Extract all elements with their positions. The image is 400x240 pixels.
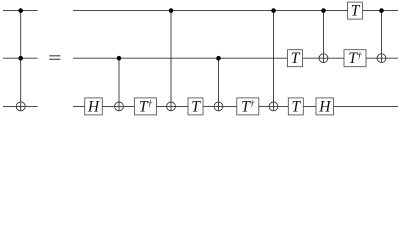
CNOT6 target q1 — [377, 54, 386, 63]
gate H2 q2 — [316, 98, 334, 115]
equals sign — [49, 55, 60, 59]
control dot CNOT1 q1 — [117, 56, 122, 61]
wire q2 left — [3, 105, 38, 107]
control dot q0 toffoli — [18, 8, 23, 13]
wire vertical toffoli link — [20, 11, 22, 111]
gate Tdg1 q2 — [135, 98, 157, 115]
wire q0 left — [3, 10, 38, 12]
svg-text:H: H — [318, 98, 331, 115]
CNOT target q2 toffoli — [16, 102, 25, 111]
gate T4 q0 — [348, 2, 363, 19]
wire q2 right — [73, 105, 398, 107]
CNOT5 target q1 — [319, 54, 328, 63]
svg-text:T: T — [291, 98, 301, 115]
wire CNOT6 vertical q0-q1 — [381, 11, 383, 63]
wire q0 right — [73, 10, 398, 12]
svg-text:T: T — [291, 50, 301, 67]
wire CNOT2 vertical q0-q2 — [170, 11, 172, 111]
control dot q1 toffoli — [18, 56, 23, 61]
gate T1 q2 — [188, 98, 203, 115]
wire CNOT1 vertical q1-q2 — [118, 58, 120, 111]
wire CNOT5 vertical q0-q1 — [323, 11, 325, 63]
gate Tdg3 q1 — [344, 50, 366, 67]
wire CNOT3 vertical q1-q2 — [218, 58, 220, 111]
wire CNOT4 vertical q0-q2 — [273, 11, 275, 111]
gate Tdg2 q2 — [237, 98, 259, 115]
svg-text:T: T — [191, 98, 201, 115]
CNOT1 target q2 — [115, 102, 124, 111]
control dot CNOT3 q1 — [216, 56, 221, 61]
control dot CNOT5 q0 — [321, 8, 326, 13]
gate T2 q2 — [288, 98, 303, 115]
CNOT2 target q2 — [167, 102, 176, 111]
control dot CNOT4 q0 — [271, 8, 276, 13]
CNOT3 target q2 — [214, 102, 223, 111]
svg-text:T: T — [351, 3, 361, 20]
wire q1 right — [73, 57, 398, 59]
gate H1 q2 — [85, 98, 103, 115]
wire q1 left — [3, 57, 38, 59]
svg-text:H: H — [87, 98, 100, 115]
gate T3 q1 — [288, 50, 303, 67]
control dot CNOT6 q0 — [379, 8, 384, 13]
control dot CNOT2 q0 — [169, 8, 174, 13]
CNOT4 target q2 — [269, 102, 278, 111]
